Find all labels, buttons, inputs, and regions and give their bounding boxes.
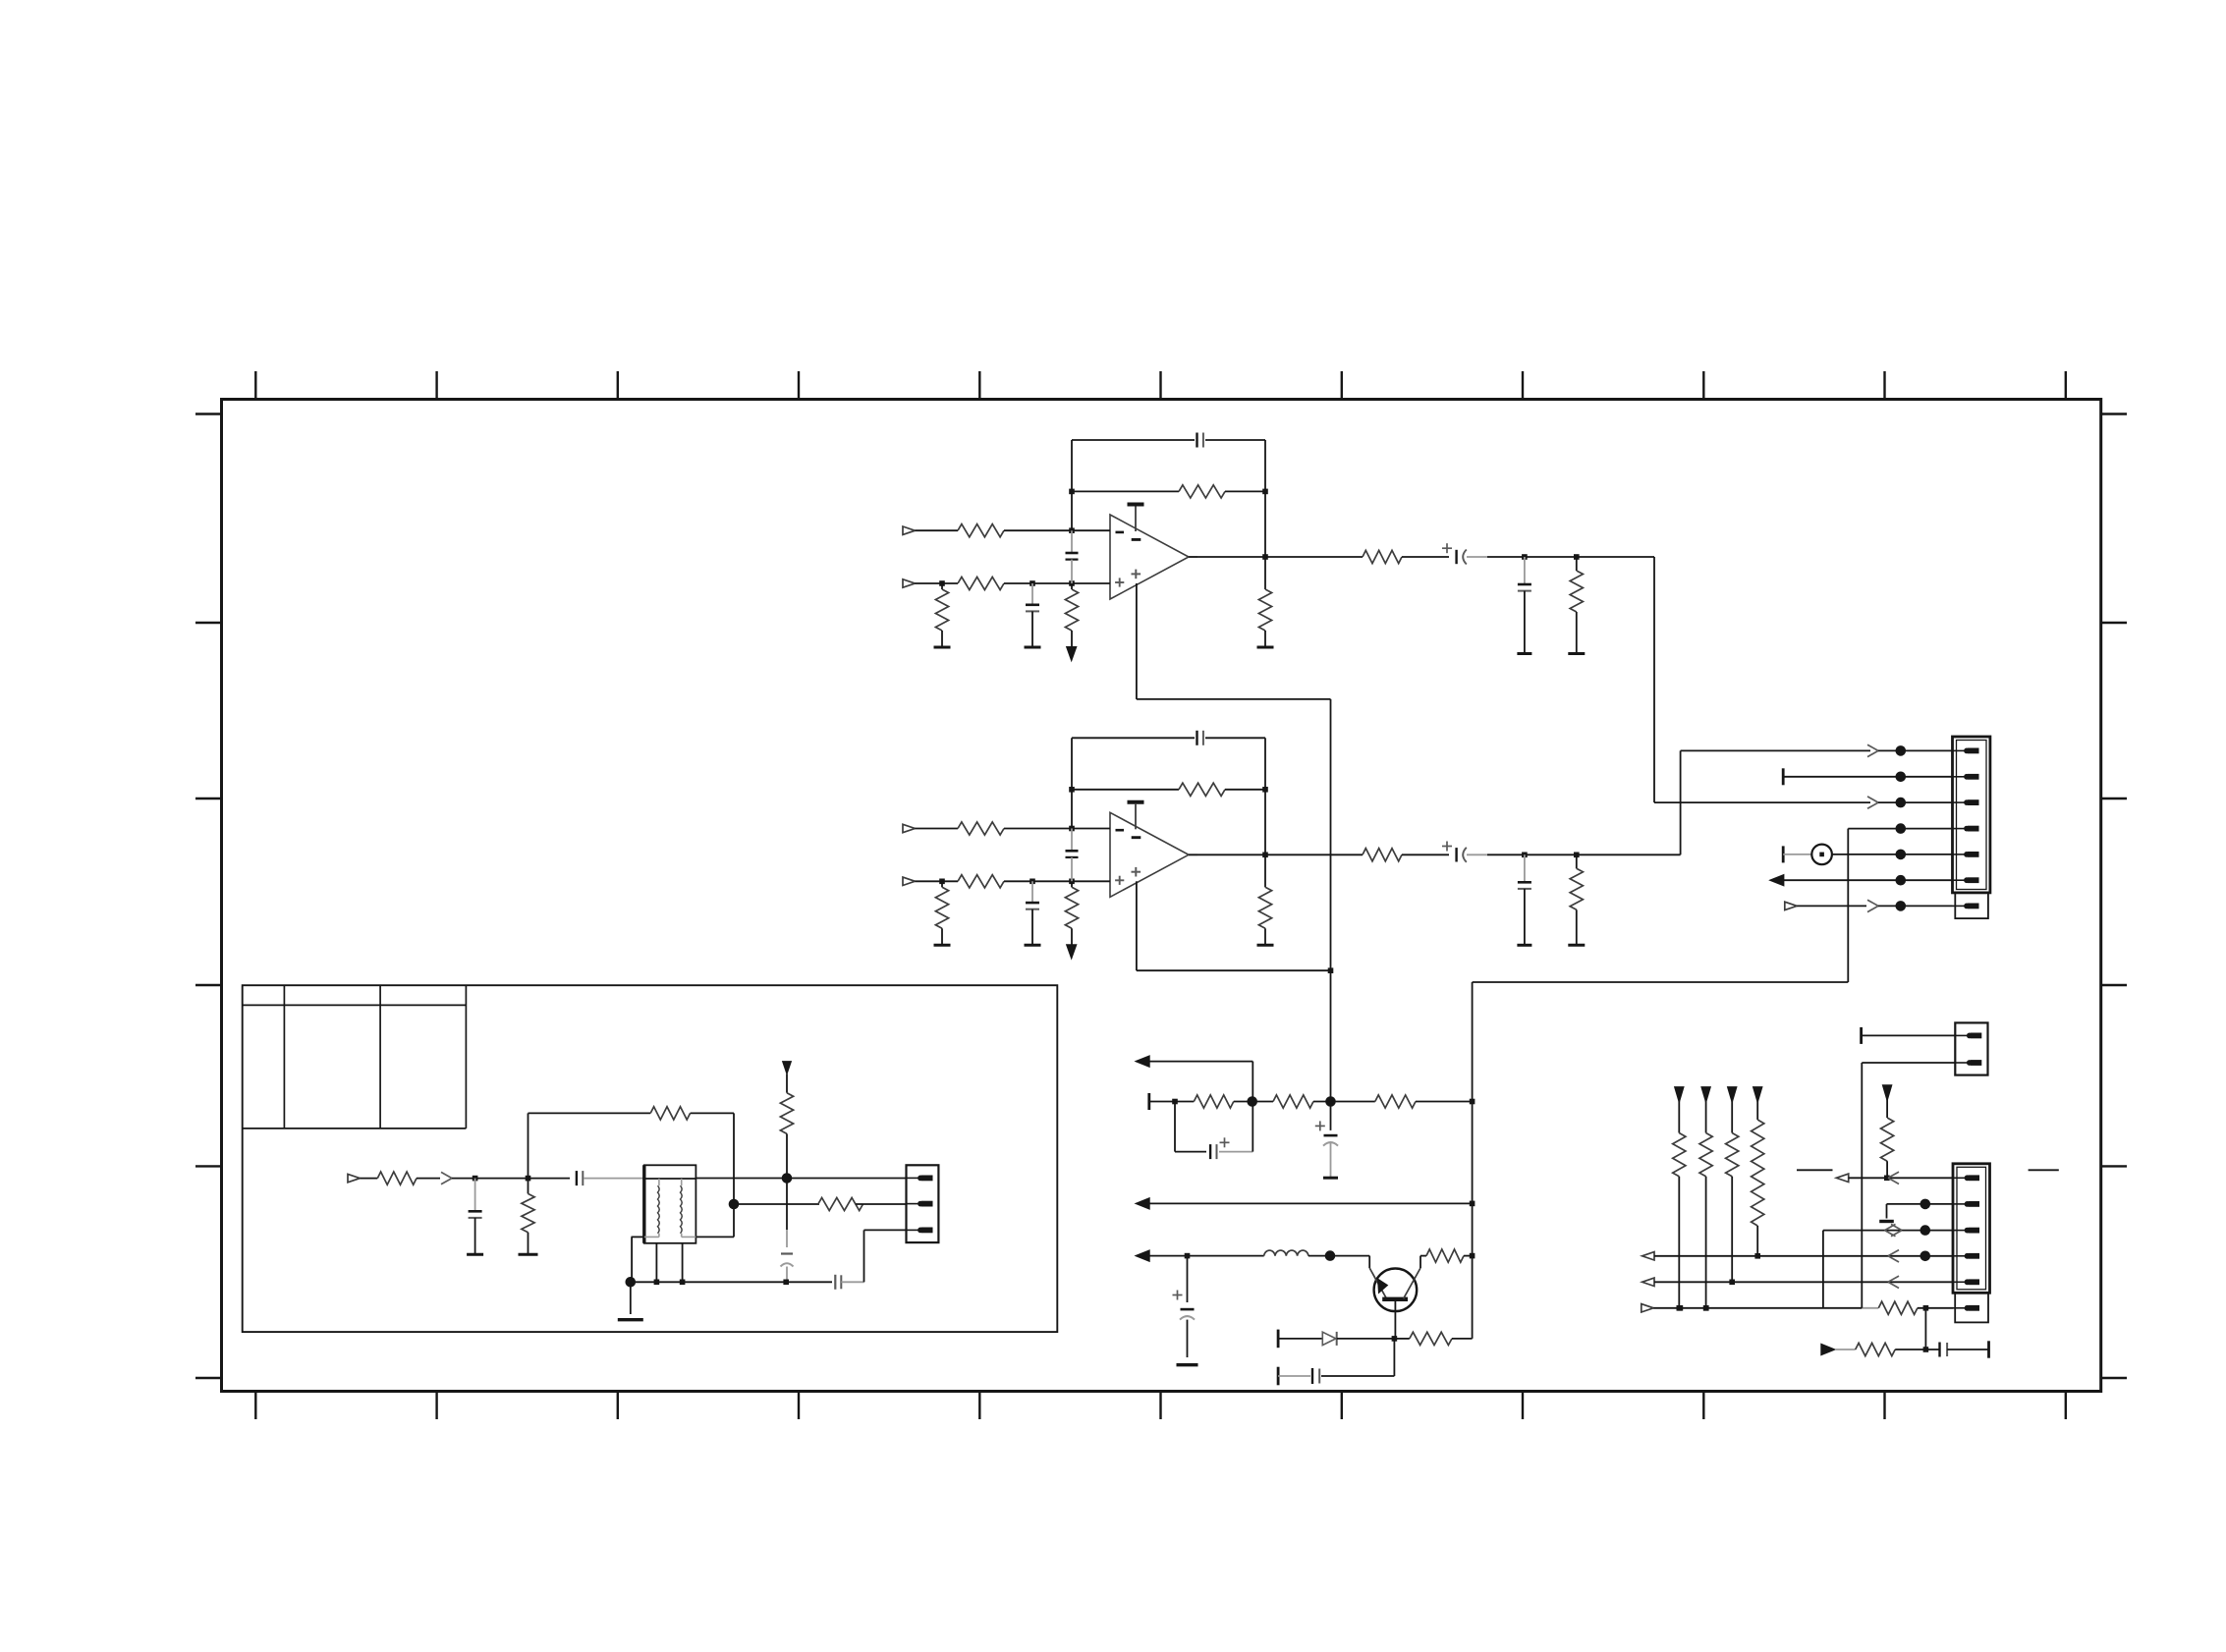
- J1 pin 7: [1953, 904, 1979, 909]
- connector J1 body: [1953, 737, 1990, 893]
- wire C15 to end bar: [1947, 1349, 1988, 1350]
- resistor R22: [1673, 1133, 1686, 1177]
- wire J2 row4: [1654, 1250, 1953, 1262]
- right border ticks: [2101, 414, 2127, 1379]
- wire row1 left: [1149, 1099, 1195, 1105]
- wire C8 right leg: [1262, 738, 1268, 854]
- ground C6: [1025, 944, 1041, 947]
- power arrow col1: [1675, 1087, 1684, 1103]
- J1 pin 2: [1953, 774, 1979, 780]
- port J2 row6: [1642, 1304, 1653, 1312]
- resistor R20 collector: [1426, 1249, 1464, 1262]
- transformer T1 body: [644, 1165, 696, 1243]
- resistor R27: [1878, 1301, 1918, 1314]
- ground R30: [519, 1253, 538, 1256]
- wire Q1 base down: [1394, 1301, 1396, 1339]
- J3 pin1 stub wire: [1862, 1027, 1956, 1044]
- wire R2 to U1A noninv: [1004, 580, 1110, 586]
- wire J3 pin2 down bus: [1862, 1063, 1955, 1308]
- sub-circuit box: [243, 985, 1058, 1332]
- diode D1: [1322, 1332, 1336, 1346]
- resistor R30 to ground: [522, 1179, 534, 1255]
- wire row C left: [1149, 1253, 1264, 1259]
- resistor R25: [1752, 1120, 1764, 1226]
- transistor Q1: [1369, 1256, 1420, 1312]
- ground R14: [1257, 944, 1274, 947]
- resistor R33: [780, 1074, 793, 1178]
- power arrow col4: [1753, 1087, 1762, 1103]
- connector J4 body: [907, 1165, 939, 1242]
- wire V- rail U1B join: [1137, 967, 1333, 973]
- capacitor C15: [1940, 1343, 1948, 1357]
- terminal bar cap row: [1277, 1367, 1280, 1386]
- resistor R13 feedback: [1072, 783, 1265, 796]
- wire C8 left leg: [1069, 738, 1075, 828]
- wire col2 top: [1705, 1101, 1707, 1133]
- ground J2 row2: [1879, 1220, 1894, 1223]
- capacitor C5 to ground: [1518, 557, 1531, 654]
- bottom border ticks: [255, 1392, 2066, 1420]
- wire C3 right leg: [1262, 440, 1268, 557]
- feedback riser: [528, 1113, 529, 1178]
- capacitor C10 to ground: [1518, 854, 1531, 945]
- wire R19 to bus: [1416, 1099, 1475, 1105]
- wire node A down-right to J1 pin3: [1654, 557, 1870, 802]
- power arrow T-column: [783, 1062, 792, 1074]
- J3 pin 2: [1955, 1060, 1981, 1066]
- resistor R29: [377, 1172, 417, 1184]
- ground R8: [1568, 652, 1585, 655]
- wire Q1 collector to R20: [1420, 1255, 1426, 1257]
- wire R15 to C9: [1402, 854, 1449, 855]
- wire C9 to node B: [1487, 853, 1681, 858]
- port J2 row5: [1642, 1278, 1654, 1286]
- table: [243, 985, 467, 1129]
- bus arrow row C: [1136, 1250, 1149, 1261]
- J1 pin 3: [1953, 799, 1979, 805]
- J2 pin 5: [1953, 1279, 1979, 1285]
- resistor R24: [1726, 1133, 1739, 1177]
- capacitor C7 across inputs: [1066, 829, 1079, 882]
- resistor R6 to ground: [1258, 557, 1271, 647]
- capacitor C4 polarized: [1442, 543, 1487, 564]
- T1 shield pins: [656, 1243, 682, 1283]
- zone dash right: [2029, 1169, 2059, 1171]
- ground C10: [1517, 944, 1531, 947]
- resistor R1: [958, 524, 1004, 537]
- wire node B up-right to J1 pin1: [1681, 750, 1870, 854]
- wire col4 top: [1756, 1101, 1758, 1120]
- resistor R5 feedback: [1072, 485, 1265, 498]
- wire R18-R19: [1313, 1096, 1375, 1107]
- J1 pin 4: [1953, 826, 1979, 832]
- wire R1 to U1A inv: [1004, 527, 1110, 533]
- wire R27 to pin: [1918, 1305, 1953, 1311]
- terminal bar row1: [1147, 1093, 1150, 1110]
- bus arrow row A: [1136, 1056, 1149, 1067]
- J2 pin 4: [1953, 1253, 1979, 1259]
- wire R9 to U1B inv: [1004, 826, 1110, 832]
- J4 pin 2: [907, 1201, 933, 1207]
- analog ground arrow 1: [1067, 647, 1077, 661]
- resistor R9: [958, 822, 1004, 835]
- ground C13: [1177, 1363, 1198, 1366]
- left border ticks: [195, 414, 222, 1379]
- zone dash left: [1797, 1169, 1833, 1171]
- port IN1-: [903, 526, 915, 534]
- J4 pin 1: [907, 1176, 933, 1182]
- wire col3 bottom: [1729, 1177, 1735, 1285]
- wire R10 to U1B noninv: [1004, 879, 1110, 885]
- wire arrow to R28: [1835, 1349, 1856, 1350]
- wire L1 to Q1: [1308, 1250, 1369, 1261]
- ground R3: [934, 646, 951, 649]
- resistor R21: [1410, 1332, 1452, 1345]
- J2 pin 1: [1953, 1175, 1979, 1181]
- J2 pin 6: [1953, 1305, 1979, 1311]
- wire fb top: [529, 1112, 651, 1114]
- J2 pin 2: [1953, 1201, 1979, 1207]
- wire T1 out row: [696, 1173, 906, 1184]
- wire row A: [1149, 1062, 1252, 1102]
- port IN2+: [903, 877, 915, 885]
- terminal bar lower row: [1987, 1341, 1990, 1357]
- resistor R8 to ground: [1570, 557, 1583, 654]
- resistor R4 to analog ground: [1065, 583, 1078, 647]
- op-amp U1B: [1110, 812, 1197, 897]
- J3 pin 1: [1955, 1033, 1981, 1039]
- capacitor C6 to ground: [1026, 881, 1039, 945]
- top border ticks: [255, 371, 2066, 400]
- port J2 row4: [1642, 1252, 1654, 1260]
- capacitor C16 series: [577, 1171, 644, 1185]
- wire J2 row3: [1823, 1224, 1953, 1236]
- polarity mark symbol: [1811, 845, 1832, 865]
- resistor R3 to ground: [935, 583, 948, 647]
- resistor R17: [1194, 1095, 1234, 1108]
- resistor R31 feedback: [650, 1107, 690, 1120]
- J1 pin 5: [1953, 852, 1979, 857]
- ground bottom bus: [618, 1282, 643, 1319]
- port J1 pin7: [1785, 902, 1797, 909]
- resistor R11 to ground: [935, 881, 948, 945]
- wire XIN to R29: [360, 1178, 377, 1180]
- wire fb right: [691, 1113, 740, 1237]
- wire IN2- to R9: [915, 828, 958, 830]
- J1 pin 6: [1953, 877, 1979, 883]
- resistor R23: [1699, 1133, 1712, 1177]
- power arrow col2: [1701, 1087, 1710, 1103]
- terminal bar diode row: [1277, 1330, 1280, 1349]
- wire C4 to node A: [1487, 554, 1654, 560]
- wire C14 to base node: [1321, 1339, 1394, 1376]
- connector J2 pin6 box: [1955, 1293, 1988, 1322]
- wire J2 row6 left: [1653, 1305, 1878, 1311]
- analog ground arrow 2: [1067, 945, 1077, 959]
- wire J2 row3 jog down: [1822, 1231, 1824, 1308]
- T1 secondary exit left: [632, 1237, 644, 1282]
- capacitor C19 series: [835, 1275, 863, 1290]
- J1 pin 1: [1953, 748, 1979, 754]
- capacitor C1 to ground: [1026, 583, 1039, 647]
- capacitor C8 feedback: [1072, 731, 1265, 745]
- capacitor C13 polarized to ground: [1173, 1256, 1196, 1357]
- wire R7 to C4: [1402, 556, 1449, 558]
- resistor R2: [958, 577, 1004, 589]
- wire R28 to node: [1895, 1308, 1939, 1352]
- wire C19 to J4 pin3: [864, 1230, 907, 1282]
- connector J1 pin8 box: [1955, 893, 1988, 918]
- power arrow col5: [1883, 1085, 1892, 1101]
- inductor L1: [1264, 1250, 1308, 1256]
- wire U1A output: [1189, 554, 1363, 560]
- capacitor C3 feedback: [1072, 433, 1265, 448]
- ground R16: [1568, 944, 1585, 947]
- resistor R7 output: [1363, 550, 1402, 563]
- bus vertical right: [1473, 982, 1849, 1339]
- resistor R10: [958, 875, 1004, 888]
- wire into J1 pin3: [1878, 798, 1953, 808]
- wire col1 bottom: [1677, 1177, 1683, 1311]
- ground C1: [1025, 646, 1041, 649]
- wire IN1+ to R2: [915, 580, 958, 586]
- op-amp U1A: [1110, 515, 1197, 599]
- wire col1 top: [1678, 1101, 1680, 1133]
- wire col2 bottom: [1703, 1177, 1709, 1311]
- wire U1B output: [1189, 853, 1363, 858]
- capacitor C9 polarized: [1442, 842, 1487, 862]
- resistor R15 output: [1363, 849, 1402, 861]
- ground C12: [1323, 1177, 1338, 1180]
- wire U1A V- pin down: [1136, 583, 1138, 699]
- wire J2 row1: [1849, 1172, 1953, 1184]
- connector J2 body: [1953, 1164, 1990, 1294]
- wire R29 on: [417, 1172, 570, 1184]
- capacitor C2 across inputs: [1066, 530, 1079, 583]
- bus arrow lower row: [1821, 1344, 1835, 1354]
- capacitor C17 to ground: [469, 1179, 482, 1255]
- port XIN: [348, 1174, 360, 1182]
- wire fb into transformer: [696, 1236, 734, 1238]
- wire to D1: [1278, 1338, 1322, 1340]
- resistor R12 to analog ground: [1065, 881, 1078, 945]
- capacitor C12 rail polarized: [1315, 1121, 1338, 1178]
- U1B V+ power bar: [1128, 802, 1144, 830]
- resistor R14 to ground: [1258, 854, 1271, 945]
- J4 pin 3: [907, 1228, 933, 1234]
- wire col4 bottom: [1754, 1226, 1760, 1259]
- resistor R26: [1881, 1099, 1894, 1178]
- wire U1B V- pin down: [1136, 881, 1138, 970]
- port IN2-: [903, 824, 915, 832]
- resistor R28: [1856, 1343, 1896, 1355]
- port J2 row1: [1836, 1174, 1848, 1182]
- wire mid row: [734, 1203, 819, 1205]
- wire to C14: [1278, 1375, 1310, 1377]
- ground R11: [934, 944, 951, 947]
- bottom bus row: [626, 1277, 833, 1288]
- J2 pin 3: [1953, 1228, 1979, 1234]
- U1A V+ power bar: [1128, 505, 1144, 532]
- wire J2 row5: [1654, 1276, 1953, 1288]
- wire row B: [1149, 1201, 1475, 1207]
- wire J1 pin4 to bus: [1848, 823, 1952, 982]
- wire symbol to J1 pin5: [1832, 850, 1953, 860]
- wire port to J1 pin7: [1797, 900, 1952, 911]
- wire R32 to J4 pin2: [856, 1203, 907, 1205]
- ground R6: [1257, 646, 1274, 649]
- wire into J1 pin1: [1878, 745, 1953, 756]
- resistor R18: [1273, 1095, 1313, 1108]
- wire R20 to bus: [1464, 1253, 1475, 1259]
- power arrow col3: [1728, 1087, 1737, 1103]
- capacitor C14: [1312, 1368, 1319, 1384]
- wire IN2+ to R10: [915, 879, 958, 885]
- wire col3 top: [1731, 1101, 1733, 1133]
- bus arrow J1 pin6: [1770, 875, 1953, 886]
- resistor R32: [818, 1197, 863, 1210]
- capacitor C11 bypass loop: [1175, 1102, 1252, 1160]
- wire base node to R21: [1394, 1338, 1472, 1340]
- J1 pin2 stub wire: [1783, 768, 1952, 785]
- J1 pin5 stub wire: [1783, 846, 1811, 862]
- chevron J1 pin3: [1867, 797, 1878, 808]
- transformer T1 windings: [644, 1179, 696, 1237]
- ground C5: [1517, 652, 1531, 655]
- bus arrow row B: [1136, 1198, 1149, 1209]
- resistor R19: [1375, 1095, 1416, 1108]
- wire C3 left leg: [1069, 440, 1075, 530]
- wire D1 to base node: [1337, 1336, 1398, 1342]
- port IN1+: [903, 579, 915, 587]
- sheet border frame: [222, 400, 2101, 1392]
- capacitor C18 shunt: [781, 1179, 794, 1283]
- wire IN1- to R1: [915, 529, 958, 531]
- ground C17: [467, 1253, 483, 1256]
- connector J3 body: [1955, 1022, 1987, 1074]
- chevron J1 pin1: [1867, 744, 1878, 756]
- wire J2 row2 to ground: [1887, 1199, 1954, 1219]
- wire R17-R18: [1234, 1096, 1273, 1107]
- wire V- rail U1A to mid: [1137, 699, 1331, 1130]
- resistor R16 to ground: [1570, 854, 1583, 945]
